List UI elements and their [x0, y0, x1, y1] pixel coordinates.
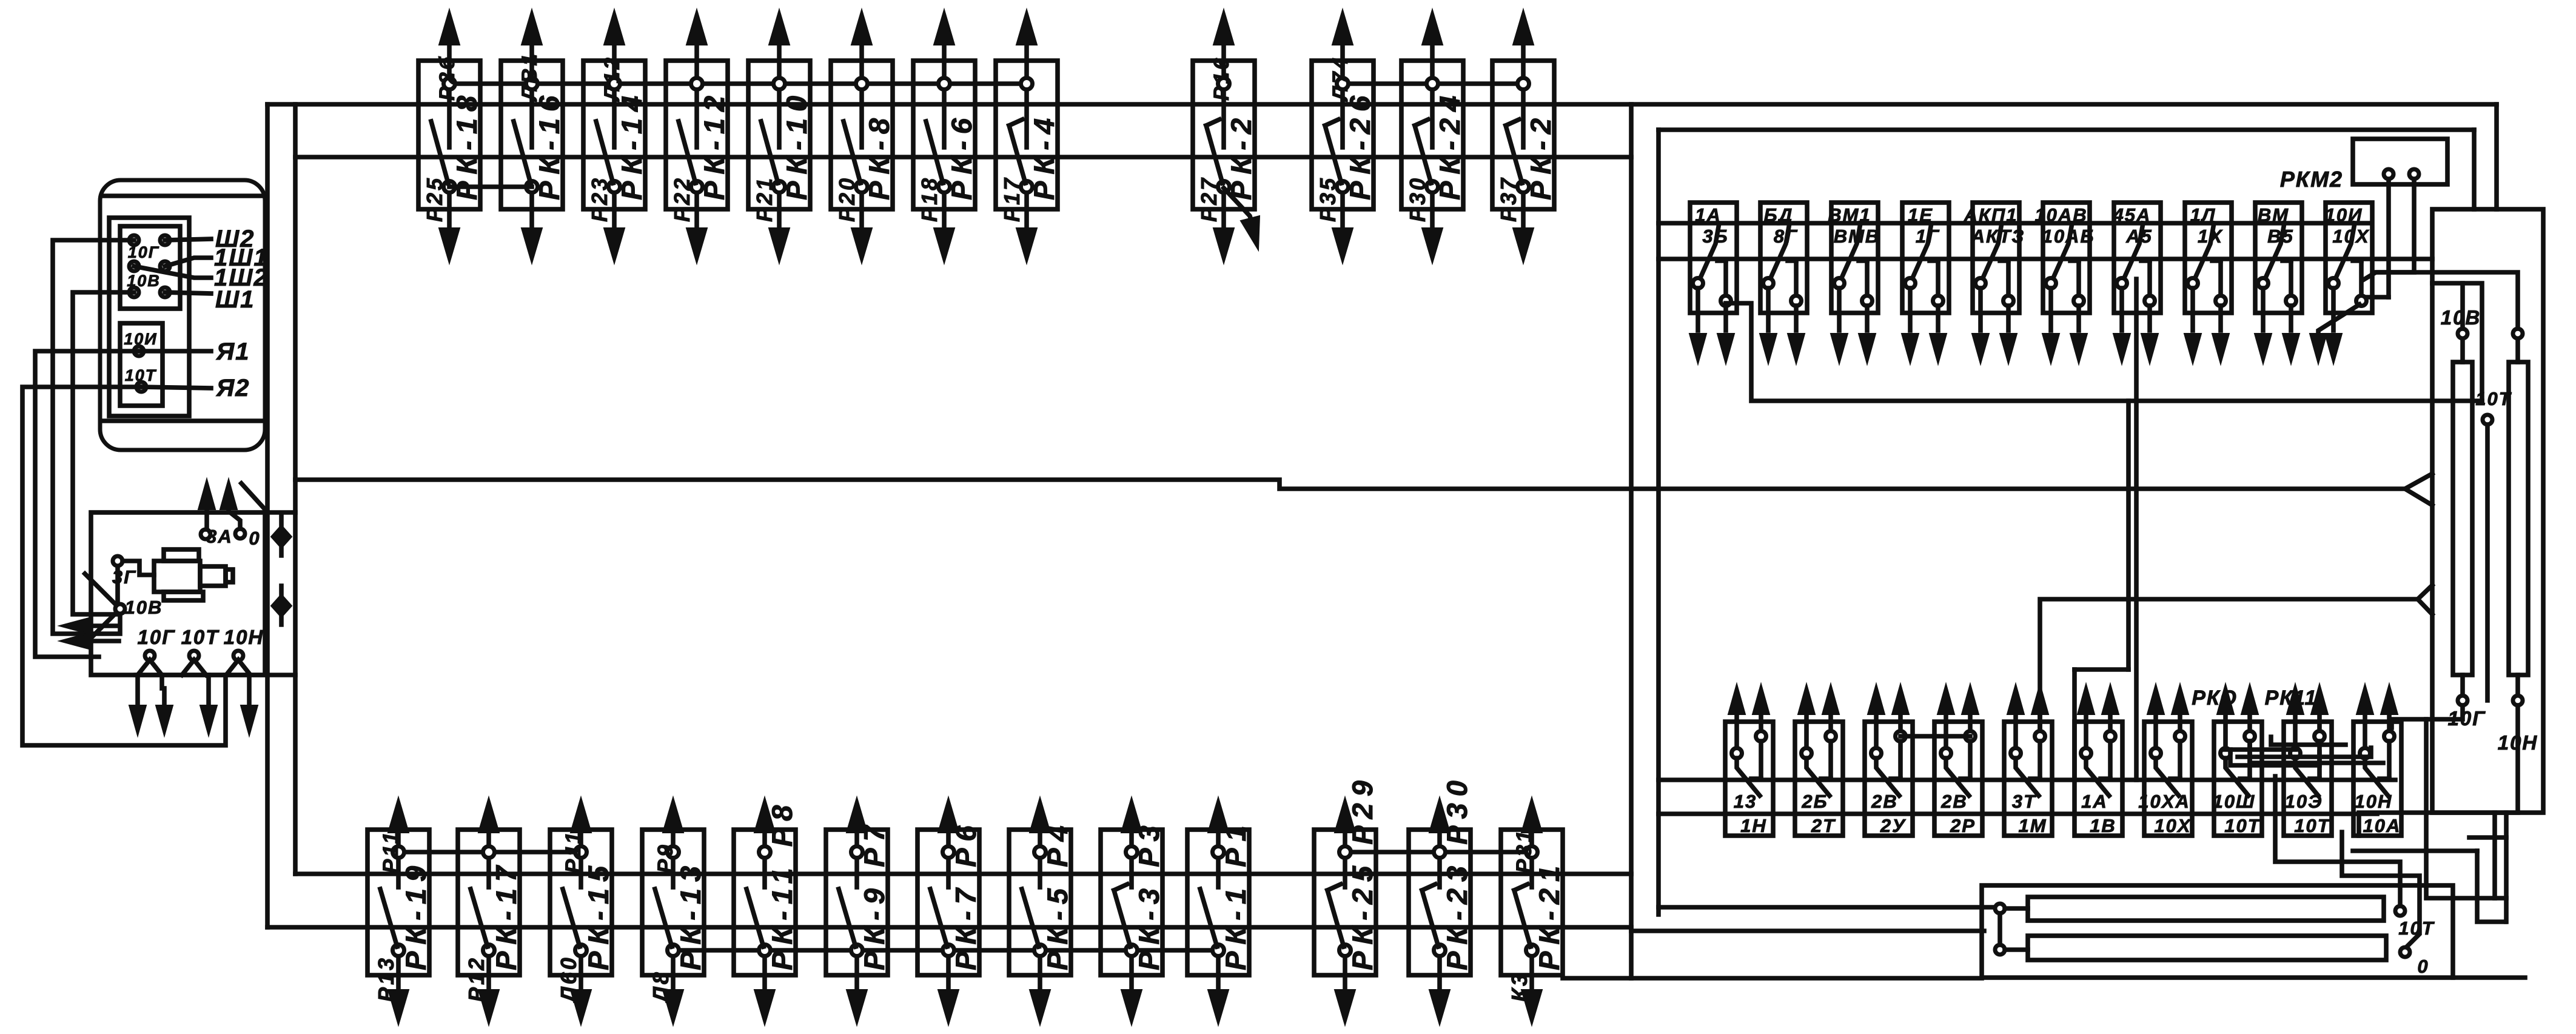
svg-text:Р16: Р16 — [1210, 56, 1233, 101]
svg-text:Ш1: Ш1 — [215, 286, 255, 313]
svg-text:РК-5 Р4: РК-5 Р4 — [1041, 819, 1073, 970]
wire: top bus B (y=259) — [295, 155, 1631, 159]
diamond connector 2 — [271, 586, 292, 625]
contact block 45А/А5 — [2113, 203, 2161, 364]
svg-text:2В: 2В — [1940, 791, 1968, 812]
relay contact block РК-7 Р6 — [917, 797, 982, 1025]
label 10Т tap — [2475, 388, 2512, 700]
pin leader 1Ш2 — [134, 266, 211, 278]
contact block БД/8Г — [1760, 203, 1807, 364]
relay contact block РК-14/Р23 — [583, 10, 648, 263]
relay contact block РК-26/Р35 — [1312, 10, 1376, 263]
relay contact block РК-25 Р29 — [1314, 774, 1378, 1025]
svg-text:РКМ2: РКМ2 — [2280, 167, 2343, 192]
drive unit box — [91, 512, 265, 675]
relay contact block РК-17/Р12 — [458, 797, 522, 1025]
svg-text:10Э: 10Э — [2285, 791, 2323, 812]
svg-text:10Х: 10Х — [2154, 815, 2191, 836]
wire bundle 3 — [2230, 750, 2319, 765]
svg-text:3Т: 3Т — [2012, 791, 2037, 812]
svg-text:3Г: 3Г — [112, 566, 136, 588]
terminal 10Н plug — [226, 651, 250, 675]
contact block 1Л/1Х — [2184, 203, 2232, 364]
relay contact block РК-4/Р17 — [996, 10, 1060, 263]
svg-text:10Т: 10Т — [2475, 388, 2512, 409]
resistor element 10Т bottom — [1995, 897, 2384, 921]
wire w3 from Я1 — [35, 351, 139, 657]
connector inner frame — [109, 218, 189, 416]
arrow out left 2 — [59, 633, 119, 650]
svg-text:2В: 2В — [1871, 791, 1898, 812]
wire corner mesh g — [2453, 975, 2525, 980]
relay contact block РК-21/К3 — [1501, 797, 1565, 1025]
svg-text:10Н: 10Н — [224, 626, 264, 648]
right section inner frame — [1659, 130, 2474, 915]
wire link circles in resistance box — [1997, 913, 2002, 945]
contact block ВМ/В5 — [2255, 203, 2302, 364]
relay contact block РК-9 Р7 — [826, 797, 890, 1025]
right-top bus lower — [1659, 257, 2432, 261]
wire РК11 area to 0 tap — [2342, 832, 2420, 946]
wire link blocks 3-4 right circles — [1900, 734, 1970, 739]
wire corner mesh f — [2469, 835, 2506, 840]
svg-text:Р22: Р22 — [669, 176, 694, 222]
svg-text:10Т: 10Т — [2294, 815, 2330, 836]
wire top-row circle link 1-2 bottom — [449, 184, 532, 189]
relay contact block РК-12/Р22 — [666, 10, 730, 263]
wire riser x=3523 — [2134, 279, 2139, 780]
svg-text:РК-8: РК-8 — [863, 112, 895, 200]
relay contact block РК-2/Р37 — [1492, 10, 1557, 263]
svg-text:10ХА: 10ХА — [2138, 791, 2190, 812]
wire 10Н resistor bottom down — [2359, 705, 2518, 836]
svg-text:10Г: 10Г — [128, 243, 160, 261]
relay contact block РК-19/Р13 — [367, 797, 432, 1025]
svg-text:РК-12: РК-12 — [698, 89, 730, 200]
svg-text:Р20: Р20 — [834, 176, 859, 222]
svg-text:3А: 3А — [206, 526, 233, 547]
wire: middle long bus — [295, 480, 2405, 489]
svg-text:10В: 10В — [127, 272, 161, 290]
svg-text:10Ш: 10Ш — [2213, 791, 2256, 812]
right-bottom bus upper — [1659, 777, 2395, 782]
diagonal wire into motor box corner — [241, 483, 266, 510]
plug-in link box with diamonds — [267, 512, 295, 675]
svg-text:РК-25 Р29: РК-25 Р29 — [1346, 774, 1378, 970]
svg-text:10Т: 10Т — [181, 626, 220, 648]
svg-text:Р35: Р35 — [1315, 176, 1340, 222]
svg-text:Р27: Р27 — [1196, 176, 1221, 222]
contact block 1Е/1Г — [1902, 203, 1949, 364]
relay contact block РК-10/Р21 — [748, 10, 813, 263]
right-bottom bus lower — [1659, 811, 2377, 816]
svg-text:РК11: РК11 — [2265, 687, 2318, 710]
relay contact block РК-3 Р3 — [1101, 797, 1165, 1025]
wire corner mesh b — [2477, 851, 2505, 922]
svg-text:РК-16: РК-16 — [533, 89, 565, 200]
relay box РКМ2 — [2353, 139, 2447, 184]
svg-text:Я1: Я1 — [216, 338, 250, 365]
chevron into right box — [2405, 474, 2432, 505]
pin leader Я1 — [139, 349, 211, 354]
svg-text:Р18: Р18 — [917, 176, 942, 222]
wire riser x=3510 — [2126, 401, 2131, 670]
down arrow t1b — [156, 675, 173, 736]
svg-text:2Р: 2Р — [1950, 815, 1976, 836]
contact block 10Н/10А — [2353, 684, 2401, 836]
terminal 3Г — [112, 556, 154, 588]
svg-text:К3: К3 — [1507, 972, 1532, 1002]
svg-text:1А: 1А — [2081, 791, 2108, 812]
contact block 10Э/10Т — [2284, 684, 2332, 836]
relay contact block РК-13/Л8 — [642, 797, 706, 1025]
connector XP1 housing — [100, 180, 265, 450]
wire: left vertical v1 — [265, 104, 270, 927]
svg-text:Р25: Р25 — [422, 176, 447, 222]
down arrow t1a — [129, 675, 146, 736]
wire: top bus A (y=172) across top and right section frame — [267, 102, 2497, 107]
down arrow t3 — [241, 675, 258, 736]
connector pin group upper — [120, 226, 180, 309]
diamond connector 1 — [271, 517, 292, 556]
pin leader 1Ш1 — [165, 258, 211, 266]
svg-text:РК-26: РК-26 — [1344, 89, 1376, 200]
right-top bus upper — [1659, 221, 2370, 226]
pin leader Ш2 — [165, 239, 211, 240]
right-mid horizontal y=988 — [2040, 599, 2418, 736]
svg-text:1М: 1М — [2018, 815, 2047, 836]
svg-text:Л60: Л60 — [556, 955, 581, 1004]
relay contact block РК-1 Р1 — [1187, 797, 1252, 1025]
relay contact block РК-24/Р30 — [1401, 10, 1466, 263]
svg-text:10А: 10А — [2363, 815, 2401, 836]
wire corner mesh e — [2353, 848, 2477, 853]
wire horizontal y=467 — [2432, 283, 2482, 401]
svg-text:РК-15: РК-15 — [582, 859, 614, 970]
svg-text:0: 0 — [2417, 956, 2429, 977]
wire 10В top to y=467 — [2460, 283, 2465, 329]
tall box 10Н — [2432, 209, 2543, 813]
relay contact block РК-16 — [501, 10, 565, 263]
svg-text:0: 0 — [249, 528, 260, 549]
svg-text:РК-23 Р30: РК-23 Р30 — [1441, 774, 1473, 970]
svg-text:Л8: Л8 — [648, 970, 673, 1004]
contact block ВМ1/ВМВ — [1828, 203, 1880, 364]
contact block 2В/2У — [1865, 684, 1913, 836]
terminal 0 — [220, 479, 261, 549]
svg-text:РК-18: РК-18 — [451, 89, 483, 200]
svg-text:2Б: 2Б — [1801, 791, 1828, 812]
svg-text:ВМ1: ВМ1 — [1828, 204, 1871, 226]
wire riser x=3421 — [2072, 670, 2077, 780]
svg-text:Р21: Р21 — [752, 176, 777, 222]
wire corner mesh a — [2426, 719, 2506, 898]
svg-text:РК-11 Р8: РК-11 Р8 — [766, 799, 798, 970]
resistance box bottom right — [1982, 885, 2453, 978]
wire corner mesh c — [2492, 813, 2497, 898]
pin leader Ш1 — [165, 292, 211, 294]
relay contact block РК-11 Р8 — [734, 797, 798, 1025]
wire w4 from Я2 outer loop — [22, 387, 226, 745]
wire: bottom-row circle link right gap — [1345, 850, 1532, 854]
svg-text:РКО: РКО — [2192, 687, 2238, 710]
svg-text:10Н: 10Н — [2355, 791, 2393, 812]
wire РКМ2-2 down — [2364, 179, 2414, 280]
contact block 10ХА/10Х — [2138, 684, 2192, 836]
wire: terminals crossbar — [136, 673, 265, 677]
chevron 2 into right box — [2418, 585, 2432, 614]
wire РКО area to 10Т tap — [2275, 776, 2400, 906]
resistor 10В — [2453, 329, 2472, 705]
connector pin group lower — [120, 323, 163, 406]
contact block 10И/10Х — [2310, 203, 2389, 364]
relay contact block РК-18/Р25 — [418, 10, 483, 263]
svg-text:1Н: 1Н — [1740, 815, 1767, 836]
svg-text:РК-2: РК-2 — [1524, 112, 1557, 200]
contact block 2В/2Р — [1934, 684, 1982, 836]
contact block АКП1/АКТЗ — [1964, 203, 2025, 364]
wire: bottom-row circle link line (blocks 4-10) — [673, 948, 1218, 953]
svg-text:РК-7 Р6: РК-7 Р6 — [950, 819, 982, 970]
wire: circle link right gap blocks — [1343, 81, 1523, 86]
wire: bottom-row circle link line left (blocks 1-3) — [398, 850, 581, 854]
svg-text:Р13: Р13 — [374, 956, 398, 1002]
wire РКМ2-1 down — [2386, 179, 2391, 297]
svg-text:РК-6: РК-6 — [945, 112, 978, 200]
svg-text:РК-21: РК-21 — [1533, 859, 1565, 970]
svg-text:РК-9 Р7: РК-9 Р7 — [858, 819, 890, 970]
terminal 3А — [198, 479, 233, 547]
terminal 10Т plug — [182, 651, 206, 675]
relay contact block РК-2/Р27 — [1193, 10, 1259, 263]
resistor element 0 bottom — [1995, 936, 2386, 960]
svg-text:РК-4: РК-4 — [1028, 112, 1060, 200]
svg-text:РК-19: РК-19 — [400, 859, 432, 970]
svg-text:Р12: Р12 — [464, 956, 489, 1002]
svg-text:РК-3 Р3: РК-3 Р3 — [1133, 819, 1165, 970]
down arrow t2 — [200, 675, 217, 736]
contact block 13/1Н — [1725, 684, 1773, 836]
svg-text:Я2: Я2 — [216, 375, 250, 401]
contact block 1А/3Б — [1689, 203, 1737, 364]
contact block 10АВ/10АБ — [2034, 203, 2095, 364]
svg-text:РК-1 Р1: РК-1 Р1 — [1219, 819, 1252, 970]
wire: top-row circle link line — [449, 81, 1027, 86]
svg-text:1В: 1В — [2090, 815, 2116, 836]
svg-text:2Т: 2Т — [1811, 815, 1836, 836]
wire: left vertical v2 — [293, 104, 298, 874]
wire bundle 2 — [2250, 741, 2383, 763]
svg-text:РК-2: РК-2 — [1225, 112, 1257, 200]
wire w2 from pin to 3Г — [73, 292, 134, 614]
relay contact block РК-5 Р4 — [1009, 797, 1073, 1025]
svg-text:РК-24: РК-24 — [1434, 89, 1466, 200]
svg-text:Р23: Р23 — [587, 176, 612, 222]
svg-text:Р17: Р17 — [999, 176, 1024, 222]
right section outer frame — [1563, 104, 2497, 978]
arrow out left 1 — [59, 617, 119, 634]
contact block 10Ш/10Т — [2213, 684, 2262, 836]
wire 10Т top link — [2376, 272, 2518, 329]
relay contact block РК-15/Л60 — [550, 797, 614, 1025]
motor symbol — [154, 549, 233, 600]
contact block 3Т/1М — [2004, 684, 2052, 836]
contact block 1А/1В — [2075, 684, 2122, 836]
relay contact block РК-8/Р20 — [831, 10, 895, 263]
svg-text:10В: 10В — [125, 597, 163, 618]
wire y=1104 link — [2075, 667, 2128, 672]
svg-text:Р37: Р37 — [1496, 176, 1521, 222]
wire: bottom bus lower (y=1529) — [267, 925, 1631, 930]
svg-text:РК-14: РК-14 — [615, 89, 648, 200]
svg-text:10Т: 10Т — [2224, 815, 2261, 836]
svg-text:2У: 2У — [1880, 815, 1906, 836]
tap circle 0 bottom box — [2400, 947, 2429, 977]
relay contact block РК-23 Р30 — [1409, 774, 1473, 1025]
svg-text:АКП1: АКП1 — [1964, 204, 2018, 226]
svg-text:Р30: Р30 — [1405, 176, 1430, 222]
svg-text:РК-17: РК-17 — [490, 859, 522, 970]
wire block1 right to long horizontal y=661 — [1726, 303, 2482, 401]
tap circle 10Т bottom box — [2395, 906, 2435, 939]
svg-text:РК-10: РК-10 — [780, 89, 813, 200]
wire link blocks 8-9 circles — [2225, 747, 2295, 752]
pin leader Я2 — [141, 387, 211, 388]
svg-text:13: 13 — [1734, 791, 1757, 812]
wire corner mesh d — [2504, 813, 2509, 922]
terminal 10В with fan wires — [85, 574, 163, 644]
svg-text:10АВ: 10АВ — [2034, 204, 2087, 226]
svg-text:10Г: 10Г — [138, 626, 176, 648]
svg-text:РК-13: РК-13 — [674, 859, 706, 970]
resistor 10Т (right) — [2509, 329, 2528, 705]
contact block 2Б/2Т — [1795, 684, 1843, 836]
wire w1 from pin to lower left — [53, 240, 134, 634]
wire: bottom bus upper (y=1441) — [295, 871, 1631, 876]
relay contact block РК-6/Р18 — [913, 10, 978, 263]
wire 10Г to block10 — [2392, 705, 2463, 728]
wire bundle 4 — [2271, 737, 2346, 745]
wire bundle 1 — [2238, 748, 2371, 757]
terminal 10Г plug — [138, 651, 162, 675]
